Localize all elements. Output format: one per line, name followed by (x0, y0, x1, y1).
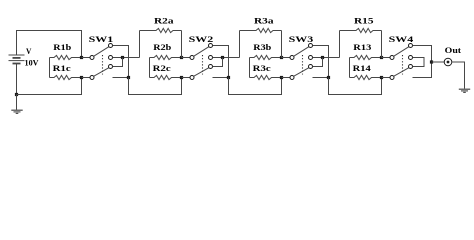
node R3b right junction (280, 56, 283, 59)
wire SW2 top throw down link (213, 46, 229, 78)
wire SW2 lower throw to junction (213, 77, 229, 79)
wire SW4 middle-lower shorting link (413, 58, 425, 67)
wire R13 junction to switch pole A (382, 57, 391, 59)
svg-text:V: V (26, 46, 32, 56)
wire R2a right drop (181, 31, 183, 58)
switch SW3 throw contact B (309, 65, 313, 69)
switch SW3 pole A (290, 56, 294, 60)
switch SW4 throw contact middle (409, 56, 413, 60)
switch SW2 throw contact B (209, 65, 213, 69)
svg-text:R15: R15 (354, 15, 374, 25)
switch SW2 arm A (194, 47, 209, 57)
node R13 right junction (380, 56, 383, 59)
switch SW3 throw contact top (309, 44, 313, 48)
svg-text:SW2: SW2 (189, 34, 214, 44)
wire to output terminal (432, 61, 445, 63)
svg-text:R3a: R3a (254, 15, 274, 25)
switch SW2 throw contact middle (209, 56, 213, 60)
ground GND1 (16, 95, 18, 110)
resistor R3c (250, 75, 282, 79)
switch SW4 throw contact B (409, 65, 413, 69)
switch SW2 arm B (194, 68, 209, 77)
resistor R2b (150, 55, 182, 59)
node R14 right junction (380, 76, 383, 79)
switch SW2 gang dashed link (202, 55, 204, 75)
switch SW4 arm B (394, 68, 409, 77)
wire SW2 middle throw output (213, 57, 240, 59)
wire R1b junction to switch pole A (82, 57, 91, 59)
switch SW1 arm B (94, 68, 109, 77)
resistor R14 (350, 75, 382, 79)
wire R3a right drop (281, 31, 283, 58)
node R1b right junction (80, 56, 83, 59)
node SW3 lower junction (327, 76, 330, 79)
resistor R1c (50, 75, 82, 79)
wire R3c junction to switch pole B (282, 77, 291, 79)
svg-text:R13: R13 (353, 42, 371, 52)
wire R15 right drop (381, 31, 383, 58)
wire R2c junction to switch pole B (182, 77, 191, 79)
svg-text:R2b: R2b (153, 42, 171, 52)
wire SW3 top throw down link (313, 46, 329, 78)
wire bottom U link stage 2 (129, 78, 182, 95)
wire SW3 lower throw to junction (313, 77, 329, 79)
svg-text:R1b: R1b (53, 42, 71, 52)
svg-text:R2a: R2a (154, 15, 174, 25)
switch SW2 pole B (190, 76, 194, 80)
wire bottom rail stage1 (17, 78, 82, 95)
svg-text:SW3: SW3 (289, 34, 314, 44)
wire R14 junction to switch pole B (382, 77, 391, 79)
svg-text:SW4: SW4 (389, 34, 415, 44)
switch SW2 pole A (190, 56, 194, 60)
svg-text:SW1: SW1 (89, 34, 114, 44)
wire R3b-R3c left bracket (249, 58, 251, 78)
switch SW3 gang dashed link (302, 55, 304, 75)
wire SW3 middle throw output (313, 57, 340, 59)
switch SW1 pole B (90, 76, 94, 80)
resistor R2a body (140, 28, 182, 32)
switch SW3 throw contact middle (309, 56, 313, 60)
resistor R13 (350, 55, 382, 59)
svg-text:R1c: R1c (53, 63, 71, 73)
svg-text:Out: Out (445, 45, 462, 55)
node SW1 lower junction (127, 76, 130, 79)
resistor R3b (250, 55, 282, 59)
wire SW3 output rise to next stage (339, 31, 341, 58)
node R2c right junction (180, 76, 183, 79)
wire SW3 tap to B contact (313, 58, 323, 67)
node SW1 output tap (121, 56, 124, 59)
switch SW4 throw contact top (409, 44, 413, 48)
wire R13-R14 left bracket (349, 58, 351, 78)
node R2b right junction (180, 56, 183, 59)
switch SW3 arm A (294, 47, 309, 57)
wire R1b-R1c left bracket (49, 58, 51, 78)
battery bottom wire (16, 63, 18, 94)
switch SW1 throw contact B (109, 65, 113, 69)
wire SW4 top throw down link (413, 46, 432, 78)
wire SW2 tap to B contact (213, 58, 223, 67)
wire SW1 top throw down link (113, 46, 129, 78)
battery V plates (9, 54, 25, 56)
wire SW1 middle throw output (113, 57, 140, 59)
node output tap (430, 60, 433, 63)
switch SW3 pole B (290, 76, 294, 80)
wire bottom U link stage 4 (329, 78, 382, 95)
node SW3 output tap (321, 56, 324, 59)
switch SW1 pole A (90, 56, 94, 60)
switch SW3 arm B (294, 68, 309, 77)
battery V top wire (17, 31, 82, 58)
switch SW4 pole B (390, 76, 394, 80)
wire bottom U link stage 3 (229, 78, 282, 95)
switch SW1 throw contact middle (109, 56, 113, 60)
switch SW2 throw contact top (209, 44, 213, 48)
switch SW1 gang dashed link (102, 55, 104, 75)
node SW2 output tap (221, 56, 224, 59)
node R3c right junction (280, 76, 283, 79)
svg-text:R14: R14 (353, 63, 372, 73)
switch SW4 arm A (394, 47, 409, 57)
svg-text:10V: 10V (25, 58, 40, 68)
wire R2b junction to switch pole A (182, 57, 191, 59)
wire R3b junction to switch pole A (282, 57, 291, 59)
resistor R1b (50, 55, 82, 59)
node battery-negative junction (15, 93, 18, 96)
switch SW1 throw contact top (109, 44, 113, 48)
svg-text:R3b: R3b (253, 42, 271, 52)
resistor R15 body (340, 28, 382, 32)
wire out to ground (452, 62, 465, 89)
terminal Out (444, 58, 452, 66)
wire R2b-R2c left bracket (149, 58, 151, 78)
wire SW1 tap to B contact (113, 58, 123, 67)
svg-text:R3c: R3c (253, 63, 271, 73)
ground GND2 (459, 88, 470, 90)
switch SW4 gang dashed link (402, 55, 404, 75)
node SW2 lower junction (227, 76, 230, 79)
switch SW4 pole A (390, 56, 394, 60)
resistor R2c (150, 75, 182, 79)
node R1c right junction (80, 76, 83, 79)
wire SW1 output rise to next stage (139, 31, 141, 58)
switch SW1 arm A (94, 47, 109, 57)
wire SW2 output rise to next stage (239, 31, 241, 58)
resistor R3a body (240, 28, 282, 32)
wire R1c junction to switch pole B (82, 77, 91, 79)
wire SW1 lower throw to junction (113, 77, 129, 79)
svg-text:R2c: R2c (153, 63, 171, 73)
